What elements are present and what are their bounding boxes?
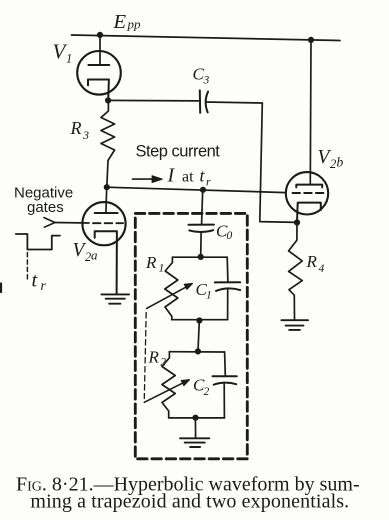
svg-text:at: at [182, 169, 194, 186]
svg-text:pp: pp [127, 17, 142, 32]
svg-text:R: R [145, 253, 157, 272]
svg-text:1: 1 [206, 290, 212, 302]
svg-text:3: 3 [203, 75, 210, 87]
svg-text:I: I [167, 165, 176, 187]
svg-text:t: t [200, 166, 206, 186]
svg-text:1: 1 [66, 52, 72, 66]
svg-text:gates: gates [27, 199, 64, 216]
svg-text:2: 2 [330, 157, 336, 171]
svg-text:r: r [206, 177, 211, 189]
svg-text:3: 3 [82, 128, 89, 142]
svg-text:2: 2 [204, 386, 210, 398]
svg-text:0: 0 [227, 230, 233, 242]
svg-text:R: R [148, 348, 160, 367]
svg-text:r: r [41, 278, 47, 293]
svg-text:2: 2 [160, 357, 166, 369]
svg-text:a: a [91, 248, 98, 263]
svg-text:4: 4 [319, 263, 325, 275]
svg-text:E: E [113, 11, 127, 33]
svg-text:R: R [70, 118, 82, 138]
svg-text:Step current: Step current [136, 143, 221, 161]
svg-text:ming a trapezoid and two expon: ming a trapezoid and two exponentials. [30, 491, 349, 513]
svg-text:t: t [32, 270, 39, 292]
svg-text:1: 1 [159, 263, 165, 275]
svg-text:R: R [306, 252, 318, 271]
svg-text:b: b [337, 155, 344, 170]
